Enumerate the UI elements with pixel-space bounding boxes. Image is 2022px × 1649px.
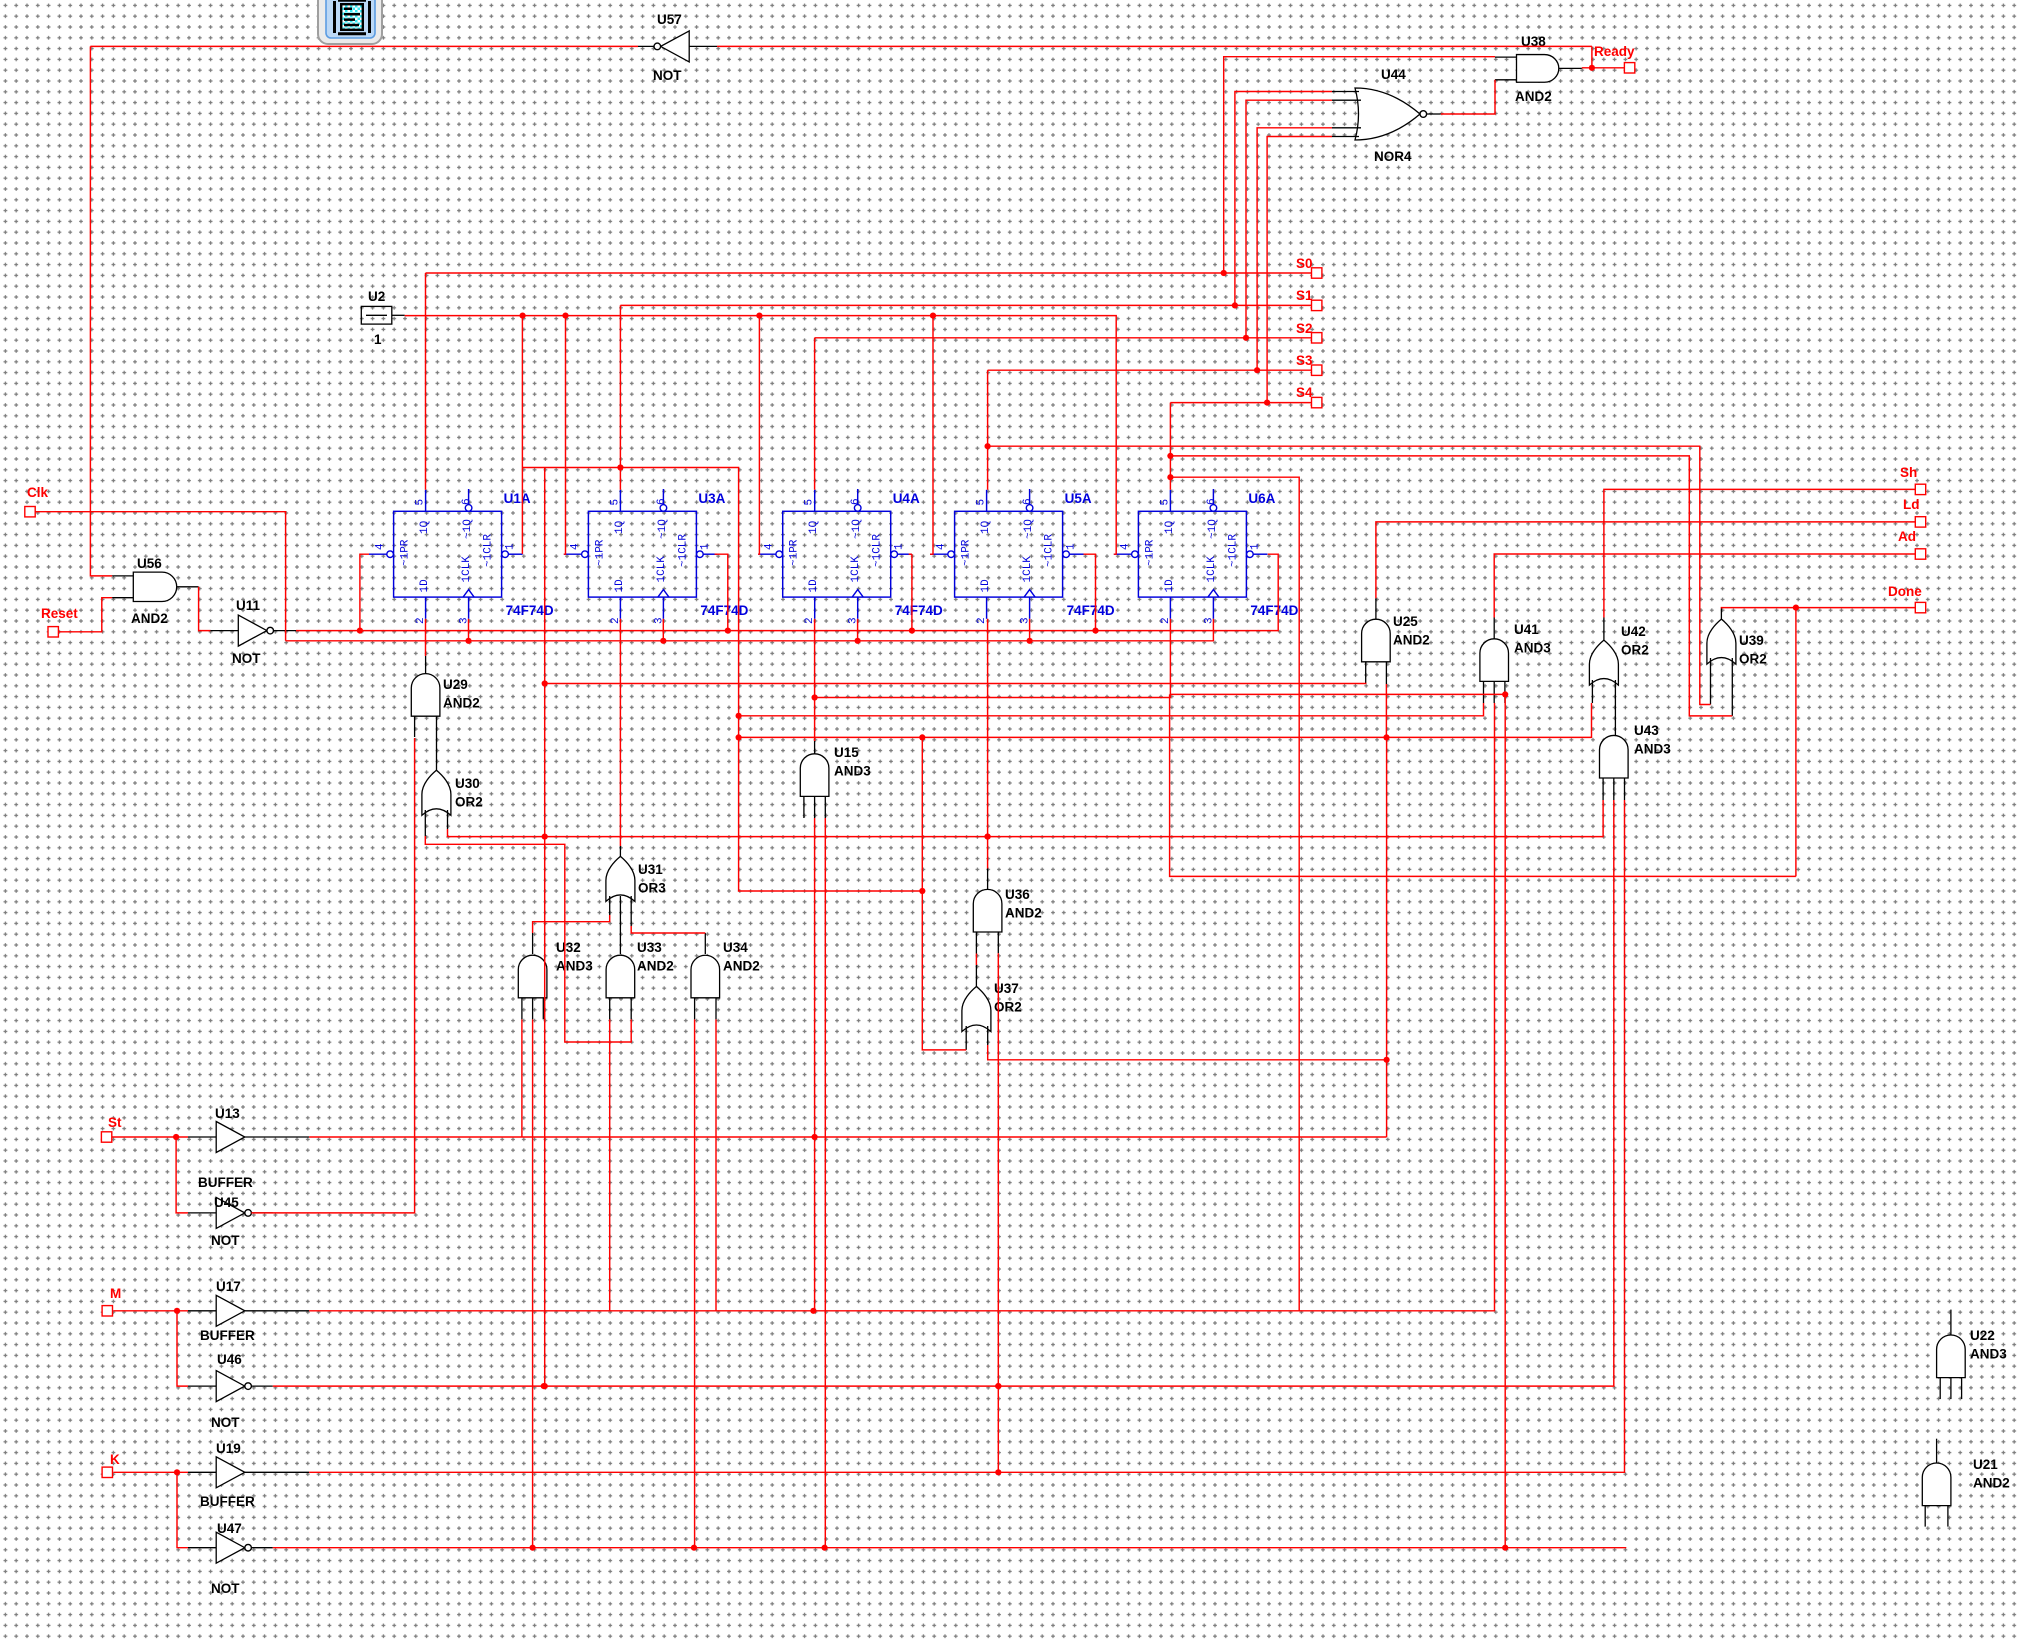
wire U36 output stub	[987, 869, 989, 890]
svg-text:6: 6	[1206, 498, 1218, 505]
svg-text:6: 6	[1022, 498, 1034, 505]
wire U30.A rail to U33 input B	[425, 836, 631, 1042]
wire U36 input stubs	[976, 932, 998, 954]
svg-text:5: 5	[976, 499, 988, 506]
wire U25 input stubs	[1366, 662, 1387, 684]
svg-text:M: M	[110, 1286, 121, 1301]
svg-text:~1CLR: ~1CLR	[1227, 534, 1239, 567]
wire U37 out to U36 input A	[975, 954, 977, 966]
wire S2 line	[815, 337, 1312, 339]
svg-text:K: K	[110, 1452, 120, 1467]
wire branch to U5A ~1PR	[930, 316, 933, 555]
wire U29 output stub	[425, 656, 427, 674]
svg-text:~1CLR: ~1CLR	[872, 534, 884, 567]
svg-text:Ld: Ld	[1903, 497, 1920, 512]
toolbar icon (in-place comment button)	[318, 0, 382, 44]
wire U34 output stub	[704, 933, 706, 954]
wire U31 output stub	[619, 846, 621, 856]
wire U22 input stubs	[1940, 1378, 1961, 1399]
wire U32 input stubs	[522, 998, 543, 1020]
svg-text:S2: S2	[1296, 321, 1313, 336]
port K	[102, 1467, 112, 1477]
wire St line (buffered)	[309, 1136, 1387, 1138]
svg-text:6: 6	[656, 498, 668, 505]
svg-text:U42: U42	[1621, 624, 1646, 639]
wire S0 up to U38 input A	[1224, 57, 1495, 273]
OR2 gate U42 (points up)	[1589, 624, 1648, 685]
wire Done feedback path	[1170, 694, 1796, 876]
AND2 gate U36 (points up)	[973, 887, 1041, 932]
svg-text:74F74D: 74F74D	[700, 603, 748, 618]
wire state link down	[738, 716, 740, 738]
wire U6A 1Q riser to S4	[1169, 403, 1171, 490]
svg-text:~1CLR: ~1CLR	[483, 534, 495, 567]
wire S3 line	[988, 369, 1312, 371]
svg-text:OR3: OR3	[638, 881, 666, 896]
BUFFER gate U17	[188, 1279, 309, 1343]
wire U32.B to K-bar line	[532, 1019, 534, 1547]
svg-text:1CLK: 1CLK	[656, 556, 668, 583]
AND3 gate U43 (points up)	[1600, 723, 1672, 778]
wire S1 riser to NOR4 in1	[1235, 92, 1332, 306]
port St	[101, 1132, 111, 1142]
svg-text:4: 4	[764, 543, 776, 550]
svg-text:6: 6	[850, 498, 862, 505]
svg-text:1D: 1D	[808, 579, 820, 593]
AND2 gate U21 (points up)	[1922, 1457, 2009, 1506]
wire U1A 1Q riser to S0	[425, 273, 427, 490]
svg-text:U41: U41	[1514, 622, 1539, 637]
wire U1A 1D from U29	[425, 619, 427, 656]
wire U37 output stub	[975, 965, 977, 987]
wire S2 riser to NOR4 in2	[1246, 100, 1332, 338]
wire Reset wire to U56 input B	[58, 598, 112, 632]
svg-text:U15: U15	[834, 745, 859, 760]
svg-text:~1CLR: ~1CLR	[1044, 534, 1056, 567]
svg-text:OR2: OR2	[455, 795, 483, 810]
svg-text:~1CLR: ~1CLR	[677, 534, 689, 567]
wire U15.B riser to M line	[814, 818, 816, 1311]
svg-text:BUFFER: BUFFER	[198, 1175, 253, 1190]
wire U15 input stubs	[804, 796, 825, 818]
svg-text:1D: 1D	[614, 579, 626, 593]
svg-text:AND2: AND2	[1005, 906, 1042, 921]
svg-text:U1A: U1A	[504, 491, 531, 506]
NOT gate U57 (points left)	[638, 12, 717, 83]
port Sh	[1915, 484, 1925, 494]
svg-text:U3A: U3A	[698, 491, 725, 506]
wire S0 line	[426, 272, 1312, 274]
svg-text:S0: S0	[1296, 256, 1313, 271]
port M	[102, 1306, 112, 1316]
svg-text:U57: U57	[657, 12, 682, 27]
wire branch to U4A ~1PR	[758, 316, 759, 555]
wire U3A ~1CLR down to rail	[715, 554, 728, 630]
wire Done port branch down	[1795, 608, 1797, 877]
AND2 gate U29 (points up)	[411, 674, 479, 717]
NOT gate U46	[188, 1352, 273, 1430]
wire U22 output stub	[1950, 1310, 1952, 1335]
wire Clk wire	[35, 512, 285, 641]
svg-text:U29: U29	[443, 677, 468, 692]
svg-text:S4: S4	[1296, 385, 1313, 400]
svg-text:1: 1	[1249, 543, 1261, 550]
component U2 (constant 1)	[361, 289, 404, 347]
wire M to U46 input	[177, 1311, 188, 1386]
AND2 gate U25 (points up)	[1362, 614, 1430, 662]
wire St branch upper segment	[921, 737, 923, 891]
svg-text:U32: U32	[556, 940, 581, 955]
wire U41 input stubs	[1484, 681, 1505, 703]
svg-text:NOR4: NOR4	[1374, 149, 1412, 164]
wire U33 input stubs	[610, 998, 632, 1020]
svg-text:Ready: Ready	[1594, 44, 1635, 59]
svg-text:5: 5	[804, 499, 816, 506]
svg-text:1Q: 1Q	[980, 520, 992, 534]
svg-text:NOT: NOT	[653, 68, 682, 83]
wire U21 input stubs	[1925, 1506, 1948, 1527]
svg-text:AND2: AND2	[131, 611, 168, 626]
svg-text:1D: 1D	[1164, 579, 1176, 593]
wire U4A 1Q riser to S2	[814, 338, 816, 490]
AND3 gate U22 (points up)	[1937, 1328, 2008, 1378]
svg-text:2: 2	[976, 617, 988, 624]
wire U34 input B long vertical	[715, 1019, 717, 1310]
svg-text:U4A: U4A	[893, 491, 920, 506]
wire St riser	[1386, 737, 1388, 1137]
flip-flop U6A 74F74D	[1114, 489, 1299, 624]
wire U21 output stub	[1936, 1439, 1938, 1463]
wire U32 out to U31 input A	[533, 915, 610, 933]
svg-text:~1PR: ~1PR	[789, 539, 801, 566]
wire U25 output stub	[1375, 598, 1377, 619]
wire U29 input stubs	[415, 716, 437, 770]
wire U42.B to U43 output link	[1614, 703, 1616, 735]
svg-text:6: 6	[461, 498, 473, 505]
NOT gate U11	[210, 598, 296, 666]
svg-text:U56: U56	[137, 556, 162, 571]
wire U15.C to K-bar line	[824, 818, 826, 1548]
wire U32 output stub	[532, 933, 534, 954]
svg-text:U36: U36	[1005, 887, 1030, 902]
wire branch up to U1A ~1PR	[360, 554, 369, 630]
svg-text:U25: U25	[1393, 614, 1418, 629]
wire M line to U41 input B	[309, 703, 1494, 1311]
wire U3A 1Q riser to S1	[619, 305, 621, 489]
NOT gate U47	[188, 1521, 273, 1596]
svg-text:1: 1	[505, 543, 517, 550]
svg-text:~1Q: ~1Q	[657, 519, 669, 539]
svg-text:U22: U22	[1970, 1328, 1995, 1343]
svg-text:Ad: Ad	[1898, 529, 1916, 544]
svg-text:NOT: NOT	[211, 1233, 240, 1248]
svg-text:AND3: AND3	[556, 959, 593, 974]
svg-text:4: 4	[1119, 543, 1131, 550]
svg-text:AND2: AND2	[1515, 89, 1552, 104]
OR3 gate U31 (points up)	[606, 856, 666, 901]
wire U41.C / K-bar vertical	[1504, 694, 1506, 1547]
wire U57 input from Ready node	[717, 45, 1592, 47]
wire Ready feedback to U57 output	[90, 45, 638, 47]
port S0	[1312, 268, 1322, 278]
wire U5A 1CLK drop	[1029, 619, 1031, 641]
svg-text:74F74D: 74F74D	[895, 603, 943, 618]
wire U56 output to U11 input	[199, 587, 211, 631]
wire U38 output to Ready port	[1582, 67, 1625, 69]
port S2	[1312, 333, 1322, 343]
wire U3A 1CLK drop	[662, 619, 664, 641]
wire U42 output stub	[1603, 618, 1605, 641]
svg-text:S1: S1	[1296, 288, 1313, 303]
wire U4A ~1CLR down to rail	[911, 554, 913, 630]
svg-text:NOT: NOT	[232, 651, 261, 666]
svg-text:AND2: AND2	[1973, 1476, 2010, 1491]
wire U33.A vertical	[609, 1019, 611, 1310]
svg-text:AND2: AND2	[1393, 633, 1430, 648]
wire U3A 1D from U31	[619, 619, 621, 846]
svg-text:~1PR: ~1PR	[1144, 539, 1156, 566]
svg-text:AND2: AND2	[443, 696, 480, 711]
svg-text:AND3: AND3	[1634, 742, 1671, 757]
svg-text:Clk: Clk	[27, 485, 49, 500]
svg-text:1CLK: 1CLK	[461, 556, 473, 583]
svg-text:~1PR: ~1PR	[400, 539, 412, 566]
svg-text:1: 1	[374, 332, 382, 347]
wire Ready node riser	[1591, 46, 1593, 67]
AND3 gate U41 (points up)	[1480, 622, 1551, 681]
svg-text:4: 4	[375, 543, 387, 550]
svg-text:NOT: NOT	[211, 1581, 240, 1596]
svg-text:U47: U47	[217, 1521, 242, 1536]
wire U34.A to K-bar line	[694, 1019, 696, 1547]
svg-text:OR2: OR2	[1739, 652, 1767, 667]
wire U34 out to U31 input C	[631, 926, 705, 933]
wire U25 out to Ld port	[1376, 522, 1915, 598]
wire U4A 1D / U15 net	[814, 619, 816, 741]
wire U41 output stub	[1493, 618, 1495, 639]
wire U39 out to Done port	[1721, 607, 1915, 610]
svg-text:1CLK: 1CLK	[1206, 556, 1218, 583]
flip-flop U5A 74F74D	[930, 489, 1115, 624]
AND2 gate U38	[1495, 34, 1582, 104]
wire U5A 1Q riser to S3	[987, 370, 989, 490]
wire U45 out to U29 input A	[251, 738, 414, 1213]
svg-text:U2: U2	[368, 289, 385, 304]
svg-text:AND2: AND2	[723, 959, 760, 974]
svg-text:Reset: Reset	[41, 606, 78, 621]
wire S4 riser to NOR4 in4	[1267, 137, 1332, 403]
svg-text:~1PR: ~1PR	[961, 539, 973, 566]
svg-text:BUFFER: BUFFER	[200, 1328, 255, 1343]
wire U30 input stubs	[425, 810, 447, 836]
svg-text:~1Q: ~1Q	[462, 519, 474, 539]
wire S3 riser to NOR4 in3	[1257, 128, 1332, 370]
svg-text:1Q: 1Q	[1164, 520, 1176, 534]
svg-text:~1Q: ~1Q	[851, 519, 863, 539]
AND2 gate U56	[112, 556, 199, 626]
svg-text:St: St	[108, 1115, 122, 1130]
wire U37 input stubs	[966, 1026, 988, 1050]
port Clk	[25, 507, 35, 517]
wire U4A 1CLK drop	[857, 619, 859, 641]
svg-text:U34: U34	[723, 940, 748, 955]
svg-text:S3: S3	[1296, 353, 1313, 368]
svg-text:AND3: AND3	[1514, 641, 1551, 656]
svg-text:1D: 1D	[980, 579, 992, 593]
wire K port to U19	[114, 1471, 189, 1473]
svg-text:~1Q: ~1Q	[1207, 519, 1219, 539]
OR2 gate U30 (points up)	[422, 770, 483, 815]
flip-flop U4A 74F74D	[758, 489, 943, 624]
svg-text:U45: U45	[214, 1195, 239, 1210]
wire U37.B line to St riser	[988, 1045, 1387, 1060]
svg-text:AND3: AND3	[834, 764, 871, 779]
port S3	[1312, 365, 1322, 375]
svg-text:AND2: AND2	[637, 959, 674, 974]
svg-text:U17: U17	[216, 1279, 241, 1294]
wire state rail to U42 input A	[739, 703, 1592, 737]
svg-text:U31: U31	[638, 862, 663, 877]
wire U41 out to Ad port	[1494, 554, 1915, 618]
svg-text:1: 1	[894, 543, 906, 550]
NOT gate U45	[188, 1195, 273, 1248]
wire U39 output stub	[1720, 609, 1722, 620]
wire St port to U13	[112, 1136, 188, 1138]
svg-text:5: 5	[609, 499, 621, 506]
svg-text:1CLK: 1CLK	[1022, 556, 1034, 583]
svg-text:~1PR: ~1PR	[594, 539, 606, 566]
port Ready	[1624, 63, 1634, 73]
svg-text:5: 5	[1159, 499, 1171, 506]
svg-text:1Q: 1Q	[808, 520, 820, 534]
svg-text:U46: U46	[217, 1352, 242, 1367]
svg-text:74F74D: 74F74D	[1250, 603, 1298, 618]
wire branch to U37 input A	[922, 891, 966, 1050]
wire U36.B long vertical	[997, 953, 999, 1472]
svg-text:OR2: OR2	[1621, 643, 1649, 658]
svg-text:74F74D: 74F74D	[506, 603, 554, 618]
wire U42 out to Sh port	[1604, 489, 1915, 617]
wire U43 input stubs	[1603, 778, 1624, 800]
svg-text:U21: U21	[1973, 1457, 1998, 1472]
wire U57 out down to U56 input A	[90, 46, 112, 576]
svg-text:1: 1	[699, 543, 711, 550]
wire U30.B rail to U43 input A	[448, 800, 1604, 837]
wire branch to U3A ~1PR	[564, 316, 566, 555]
svg-text:1D: 1D	[419, 579, 431, 593]
wire U5A 1D / U36 net	[987, 619, 989, 869]
wire U1A 1CLK drop	[468, 619, 470, 641]
wire NOR4 output to U38 input B	[1441, 80, 1495, 114]
port Ad	[1915, 549, 1925, 559]
svg-text:BUFFER: BUFFER	[200, 1494, 255, 1509]
svg-text:U44: U44	[1381, 67, 1406, 82]
port S4	[1312, 397, 1322, 407]
BUFFER gate U19	[188, 1441, 309, 1509]
wire U2 output line to U6A ~1PR	[405, 316, 1116, 555]
svg-text:U39: U39	[1739, 633, 1764, 648]
wire U11 out rail to U6A ~1CLR	[296, 554, 1278, 630]
wire U31 input stubs	[610, 896, 632, 954]
svg-text:AND3: AND3	[1970, 1347, 2007, 1362]
flip-flop U3A 74F74D	[564, 489, 749, 624]
wire rail branch line	[739, 737, 923, 891]
svg-text:U6A: U6A	[1248, 491, 1275, 506]
wire state line to U41 input A	[522, 468, 1483, 716]
wire S4 line	[1170, 402, 1311, 404]
wire K to U47 input	[177, 1472, 188, 1547]
svg-text:Sh: Sh	[1900, 465, 1917, 480]
svg-text:U5A: U5A	[1065, 491, 1092, 506]
wire U34 input stubs	[695, 998, 716, 1020]
port Ld	[1915, 517, 1925, 527]
wire U6A 1D from U15 line	[815, 619, 1171, 698]
wire U15 output stub	[814, 741, 816, 754]
wire branch to U1A ~1CLR	[521, 316, 523, 554]
wire long const vertical	[544, 468, 546, 1387]
AND2 gate U33 (points up)	[606, 940, 674, 998]
port Done	[1915, 602, 1925, 612]
wire K-bar line	[273, 1547, 1627, 1549]
wire U42 input stubs	[1592, 680, 1615, 703]
wire jog	[909, 553, 912, 555]
wire St to U45 input	[176, 1137, 188, 1213]
wire state branch down	[1170, 477, 1299, 1311]
svg-text:U11: U11	[236, 598, 261, 613]
wire M-bar line to U43 input B	[273, 800, 1614, 1386]
wire clock rail to U6A 1CLK	[286, 619, 1214, 641]
svg-text:U30: U30	[455, 776, 480, 791]
wire Done feedback rail	[1170, 693, 1506, 695]
wire U39 input stubs	[1711, 658, 1733, 716]
AND3 gate U15 (points up)	[800, 745, 871, 796]
wire state line S4-node to U39 input B	[1170, 456, 1732, 716]
svg-text:74F74D: 74F74D	[1067, 603, 1115, 618]
port Reset	[48, 627, 58, 637]
AND2 gate U34 (points up)	[691, 940, 760, 998]
wire U5A ~1CLR down to rail	[1084, 554, 1096, 630]
svg-text:NOT: NOT	[211, 1415, 240, 1430]
svg-text:U43: U43	[1634, 723, 1659, 738]
svg-text:U13: U13	[215, 1106, 240, 1121]
port S1	[1312, 300, 1322, 310]
svg-text:Done: Done	[1888, 584, 1922, 599]
AND3 gate U32 (points up)	[518, 940, 593, 998]
wire U32.A vertical	[521, 1019, 523, 1137]
svg-text:1Q: 1Q	[419, 520, 431, 534]
wire M port to U17	[114, 1310, 189, 1312]
svg-text:4: 4	[569, 543, 581, 550]
BUFFER gate U13	[188, 1106, 309, 1190]
svg-text:1Q: 1Q	[614, 520, 626, 534]
svg-text:U19: U19	[216, 1441, 241, 1456]
svg-text:5: 5	[415, 499, 427, 506]
OR2 gate U37 (points up)	[962, 981, 1022, 1032]
OR2 gate U39 (points up)	[1707, 619, 1767, 666]
NOR4 gate U44	[1332, 67, 1441, 164]
svg-text:1: 1	[1066, 543, 1078, 550]
wire U25 input B down	[1385, 684, 1387, 737]
flip-flop U1A 74F74D	[369, 489, 554, 624]
svg-text:U33: U33	[637, 940, 662, 955]
wire state line S3-node to U39 input A	[988, 446, 1711, 704]
svg-text:4: 4	[936, 543, 948, 550]
wire rail to U25 input A	[545, 683, 1366, 686]
svg-text:1CLK: 1CLK	[850, 556, 862, 583]
svg-text:~1Q: ~1Q	[1023, 519, 1035, 539]
wire K line to U43 input C	[309, 800, 1624, 1472]
wire S1 line	[620, 304, 1311, 306]
